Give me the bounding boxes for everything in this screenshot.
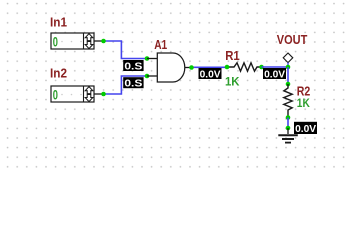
In1 down arrow [85, 42, 93, 49]
node R1 left [225, 65, 230, 70]
probe 0.S bottom [123, 77, 143, 89]
AND gate A1 [147, 53, 192, 82]
In2 pin [94, 93, 104, 95]
svg-text:0: 0 [53, 87, 58, 102]
svg-text:0.S: 0.S [124, 60, 142, 72]
node gate input B [145, 74, 150, 79]
In1 up arrow [85, 34, 93, 41]
svg-text:0.0V: 0.0V [295, 123, 316, 135]
interactive digital constant In1 box [51, 33, 94, 49]
svg-text:0: 0 [53, 34, 58, 49]
In1 pin [94, 40, 104, 42]
svg-text:R1: R1 [225, 48, 240, 63]
probe 0.0V before VOUT [263, 68, 286, 80]
node gate input A [145, 56, 150, 61]
wire VOUT down to R2 [287, 67, 289, 84]
In2 up arrow [85, 87, 93, 94]
interactive digital constant In2 box [51, 86, 94, 102]
svg-text:In2: In2 [50, 66, 67, 81]
probe 0.S top [123, 60, 143, 72]
probe 0.0V at R2 bottom [294, 122, 317, 135]
In2 down arrow [85, 95, 93, 102]
node ground [286, 126, 291, 131]
node VOUT [286, 65, 291, 70]
resistor R2 [284, 84, 292, 118]
wire R2 to ground [287, 118, 289, 129]
ground [278, 128, 298, 143]
node In1 [101, 39, 106, 44]
wire In2 to gate input B [104, 76, 148, 94]
resistor R1 [227, 63, 262, 71]
svg-text:A1: A1 [154, 37, 167, 52]
wire R1 to VOUT node [262, 66, 289, 68]
svg-text:0.0V: 0.0V [200, 68, 221, 80]
node In2 [101, 92, 106, 97]
wire gate output to R1 [192, 66, 228, 68]
svg-text:VOUT: VOUT [277, 32, 308, 47]
svg-text:0.0V: 0.0V [264, 68, 285, 80]
wire In1 to gate input A [104, 41, 148, 59]
connector diamond VOUT [283, 53, 293, 63]
svg-text:In1: In1 [50, 15, 67, 30]
wire diamond to node [287, 63, 289, 67]
svg-text:0.S: 0.S [124, 78, 142, 90]
node R1 right [259, 65, 264, 70]
node gate output [189, 65, 194, 70]
svg-text:1K: 1K [297, 98, 311, 110]
svg-text:R2: R2 [297, 83, 311, 98]
svg-text:1K: 1K [225, 77, 240, 89]
node R2 top [286, 82, 291, 87]
probe 0.0V after gate [199, 68, 222, 80]
node R2 bottom [286, 115, 291, 120]
